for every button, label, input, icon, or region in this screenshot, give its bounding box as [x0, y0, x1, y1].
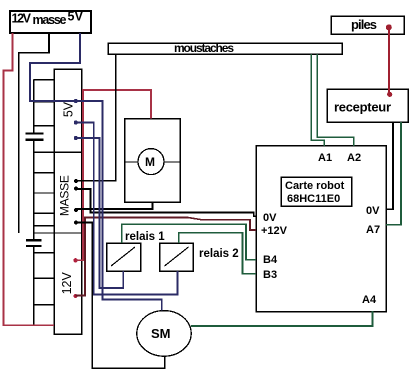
wire black recepteur to 0V right pin	[386, 122, 393, 209]
wire green relay K2 to B3 pin	[179, 233, 256, 274]
svg-text:12V: 12V	[12, 12, 32, 26]
motor terminal left	[125, 161, 138, 163]
wire black MASSE dot2 to 0V pin	[76, 189, 256, 216]
wire blue 5V from connector to dot1	[30, 33, 80, 101]
wire red 12V from connector to battery bottom	[4, 33, 55, 325]
svg-text:A7: A7	[366, 224, 380, 236]
recepteur box	[327, 89, 408, 122]
wire green relay K1 to B4 pin	[122, 224, 256, 259]
svg-text:masse: masse	[33, 13, 67, 27]
wire blue 5V dot1 to SM top	[76, 101, 162, 311]
strip divider MASSE/12V	[34, 232, 82, 234]
svg-text:MASSE: MASSE	[58, 175, 72, 216]
motor box	[125, 119, 180, 202]
svg-text:recepteur: recepteur	[334, 100, 391, 115]
svg-text:A1: A1	[318, 152, 332, 164]
node 12V dot2	[73, 294, 77, 298]
connector box 12V/masse/5V	[10, 10, 91, 34]
piles box	[331, 16, 404, 34]
svg-text:B4: B4	[263, 254, 278, 266]
wire maroon 12V dot2 to +12V pin (with switch)	[76, 218, 257, 296]
svg-text:SM: SM	[151, 326, 171, 341]
node 12V dot1	[73, 258, 77, 262]
wire black MASSE dot3 to motor bottom	[76, 202, 153, 209]
svg-text:+12V: +12V	[261, 225, 288, 237]
wire black MASSE dot4 to SM bottom	[76, 223, 165, 369]
wire red 12V dot1 to motor top	[76, 90, 151, 260]
wire blue 5V dot3 to relay K1 bottom	[76, 138, 123, 288]
node 5V dot3	[74, 136, 78, 140]
svg-text:Carte robot: Carte robot	[285, 180, 345, 192]
svg-text:A4: A4	[362, 294, 377, 306]
wire red piles to recepteur	[388, 27, 390, 94]
wire green moustaches to A1 pin	[311, 54, 324, 146]
node piles dot	[386, 24, 392, 30]
svg-text:5V: 5V	[68, 10, 84, 24]
svg-text:A2: A2	[347, 152, 361, 164]
wire black moustaches to MASSE dot1	[76, 54, 116, 181]
strip divider 5V/MASSE	[34, 151, 82, 153]
node recepteur dot	[387, 92, 392, 97]
node MASSE dot3	[74, 208, 78, 212]
carte robot U1 box	[256, 146, 386, 312]
battery strip body	[54, 69, 82, 334]
node MASSE dot1	[74, 179, 78, 183]
svg-text:0V: 0V	[263, 212, 277, 224]
node 5V dot2	[74, 121, 78, 125]
svg-text:relais 1: relais 1	[125, 231, 165, 243]
capacitor C1 plates	[26, 132, 44, 134]
node MASSE dot4	[74, 220, 78, 224]
battery cell dividers	[34, 79, 54, 81]
svg-text:B3: B3	[263, 269, 277, 281]
wire black masse from connector to battery divider	[19, 33, 49, 233]
capacitor C2 plates	[26, 239, 42, 241]
svg-text:moustaches: moustaches	[174, 41, 234, 55]
motor terminal right	[164, 161, 180, 163]
node 5V dot1	[74, 99, 78, 103]
servo motor SM	[137, 311, 191, 357]
svg-text:5V: 5V	[62, 101, 76, 117]
battery cell ladder left edge	[33, 80, 35, 134]
svg-text:12V: 12V	[60, 272, 74, 295]
wire blue 5V dot2 to relay K2 bottom	[76, 123, 178, 295]
relay K1 box	[107, 243, 141, 271]
relay K2 box	[160, 243, 194, 271]
svg-text:relais 2: relais 2	[199, 248, 239, 260]
wire green recepteur to A7 pin	[386, 122, 401, 225]
svg-text:68HC11E0: 68HC11E0	[287, 193, 340, 205]
svg-text:piles: piles	[351, 17, 377, 32]
wire green moustaches to A2 pin	[317, 54, 354, 146]
svg-text:0V: 0V	[366, 205, 380, 217]
moustaches bar	[108, 41, 342, 55]
wire green SM to A4 pin	[191, 311, 373, 326]
node MASSE dot2	[74, 186, 78, 190]
motor M circle	[138, 149, 164, 175]
svg-text:M: M	[145, 155, 155, 169]
